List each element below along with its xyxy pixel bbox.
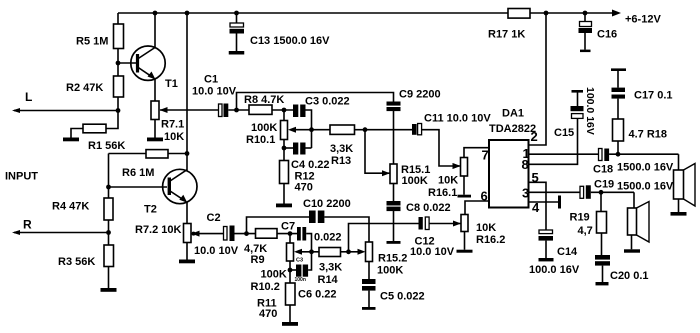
svg-text:470: 470	[259, 308, 277, 320]
svg-text:10K: 10K	[164, 131, 184, 143]
svg-text:R10.2: R10.2	[251, 281, 280, 293]
svg-text:INPUT: INPUT	[5, 171, 38, 183]
svg-text:T1: T1	[165, 78, 178, 90]
svg-text:10K: 10K	[476, 222, 496, 234]
svg-text:C1: C1	[204, 74, 218, 86]
svg-text:R1 56K: R1 56K	[88, 140, 125, 152]
svg-text:C15: C15	[554, 127, 574, 139]
svg-text:4.7 R18: 4.7 R18	[629, 129, 668, 141]
svg-text:100.0 16V: 100.0 16V	[584, 87, 596, 135]
svg-text:C6 0.22: C6 0.22	[298, 289, 337, 301]
svg-text:10.0 10V: 10.0 10V	[194, 245, 239, 257]
svg-text:7: 7	[482, 148, 489, 163]
svg-text:3,3K: 3,3K	[330, 143, 353, 155]
svg-text:C19: C19	[594, 179, 614, 191]
svg-text:C16: C16	[597, 29, 617, 41]
svg-text:R13: R13	[331, 155, 351, 167]
svg-text:R10.1: R10.1	[246, 134, 275, 146]
svg-text:8: 8	[522, 157, 529, 172]
svg-text:C3 0.022: C3 0.022	[305, 96, 350, 108]
svg-text:1500.0 16V: 1500.0 16V	[617, 162, 674, 174]
svg-text:4,7: 4,7	[578, 225, 593, 237]
svg-text:4: 4	[532, 200, 540, 215]
svg-text:C3: C3	[296, 258, 303, 264]
svg-text:3,3K: 3,3K	[319, 262, 342, 274]
svg-text:6: 6	[481, 189, 488, 204]
svg-text:L: L	[25, 90, 32, 104]
svg-text:R15.2: R15.2	[378, 253, 407, 265]
svg-text:R19: R19	[570, 212, 590, 224]
svg-text:R9: R9	[251, 254, 265, 266]
svg-text:100n: 100n	[295, 277, 306, 283]
svg-text:C20 0.1: C20 0.1	[610, 270, 649, 282]
svg-text:C17 0.1: C17 0.1	[634, 90, 673, 102]
svg-text:R6 1M: R6 1M	[122, 167, 154, 179]
svg-text:C8 0.022: C8 0.022	[406, 202, 451, 214]
svg-text:100.0 16V: 100.0 16V	[529, 264, 580, 276]
svg-text:TDA2822: TDA2822	[489, 123, 536, 135]
svg-text:R14: R14	[318, 274, 339, 286]
svg-text:10.0 10V: 10.0 10V	[410, 246, 455, 258]
svg-text:C13 1500.0 16V: C13 1500.0 16V	[250, 35, 330, 47]
svg-text:R8 4.7K: R8 4.7K	[244, 94, 284, 106]
svg-text:C11 10.0 10V: C11 10.0 10V	[424, 113, 491, 125]
svg-text:+6-12V: +6-12V	[625, 14, 661, 26]
svg-text:R5 1M: R5 1M	[76, 36, 108, 48]
svg-text:100K: 100K	[261, 269, 287, 281]
svg-text:C18: C18	[593, 164, 613, 176]
svg-text:3: 3	[522, 186, 529, 201]
svg-text:100K: 100K	[377, 265, 403, 277]
svg-text:1500.0 16V: 1500.0 16V	[617, 181, 674, 193]
svg-text:C10 2200: C10 2200	[303, 198, 351, 210]
svg-text:100K: 100K	[402, 175, 428, 187]
svg-text:R7.1: R7.1	[161, 119, 184, 131]
svg-text:T2: T2	[144, 204, 157, 216]
svg-text:10.0 10V: 10.0 10V	[192, 86, 237, 98]
svg-text:10K: 10K	[438, 175, 458, 187]
svg-text:C7: C7	[281, 221, 295, 233]
svg-text:0.022: 0.022	[314, 232, 342, 244]
svg-text:R3 56K: R3 56K	[58, 256, 95, 268]
svg-text:5: 5	[532, 170, 539, 185]
svg-text:DA1: DA1	[502, 108, 524, 120]
svg-text:R4 47K: R4 47K	[52, 201, 89, 213]
svg-text:2: 2	[531, 129, 538, 144]
svg-text:R16.2: R16.2	[476, 234, 505, 246]
svg-text:R17 1K: R17 1K	[488, 29, 525, 41]
svg-text:470: 470	[295, 182, 313, 194]
svg-text:R: R	[23, 218, 32, 232]
svg-text:C4 0.22: C4 0.22	[291, 159, 330, 171]
svg-text:C5 0.022: C5 0.022	[380, 291, 425, 303]
svg-text:C2: C2	[207, 212, 221, 224]
svg-text:R2 47K: R2 47K	[66, 82, 103, 94]
svg-text:C14: C14	[557, 246, 578, 258]
svg-text:C9 2200: C9 2200	[399, 89, 441, 101]
svg-text:R7.2 10K: R7.2 10K	[135, 224, 182, 236]
svg-text:100K: 100K	[251, 122, 277, 134]
svg-text:R16.1: R16.1	[428, 187, 457, 199]
